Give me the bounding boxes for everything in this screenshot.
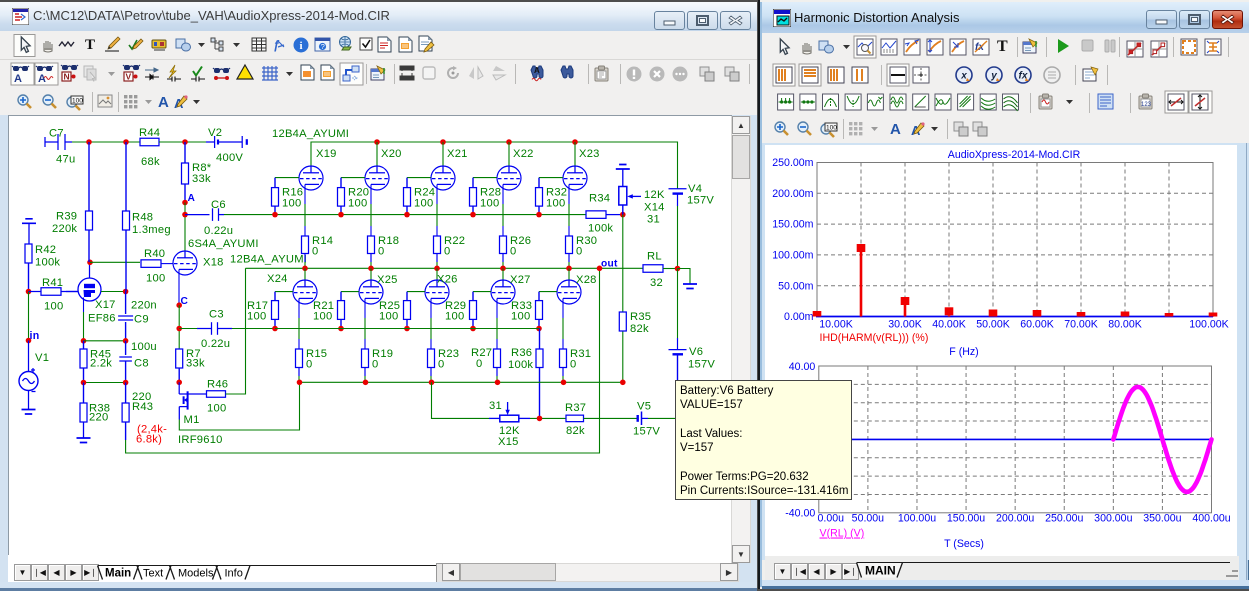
- resistor R20: [338, 178, 345, 215]
- wire grid bus row1: [224, 214, 586, 216]
- capacitor C6: [185, 208, 224, 221]
- svg-text:50.00m: 50.00m: [778, 280, 814, 292]
- node junction grid bus2: [338, 326, 344, 332]
- tube X24 12B4A: [293, 280, 317, 304]
- node junction grid bus1: [470, 212, 476, 218]
- svg-text:157V: 157V: [688, 359, 715, 371]
- svg-text:RL: RL: [647, 251, 662, 263]
- node junction C9 bottom: [123, 338, 129, 344]
- svg-text:AudioXpress-2014-Mod.CIR: AudioXpress-2014-Mod.CIR: [948, 149, 1081, 161]
- wire R39 bottom to R40: [90, 261, 140, 263]
- svg-text:C7: C7: [49, 128, 64, 140]
- svg-text:31: 31: [647, 214, 660, 226]
- battery V5: [638, 380, 678, 425]
- tube X19 12B4A: [299, 166, 323, 190]
- svg-text:60.00K: 60.00K: [1020, 319, 1054, 331]
- svg-text:2.2k: 2.2k: [90, 358, 112, 370]
- node junction grid bus2: [272, 326, 278, 332]
- wire R43 to feedback rail: [126, 268, 600, 453]
- svg-text:33k: 33k: [186, 358, 205, 370]
- svg-text:220: 220: [89, 412, 108, 424]
- svg-text:350.00u: 350.00u: [1143, 513, 1181, 525]
- tab strip: [765, 556, 1239, 580]
- resistor R31: [560, 349, 567, 376]
- svg-text:200.00m: 200.00m: [772, 188, 813, 200]
- svg-text:80.00K: 80.00K: [1108, 319, 1142, 331]
- svg-text:IRF9610: IRF9610: [178, 434, 223, 446]
- wire grid feed X23: [539, 177, 563, 179]
- resistor R21: [338, 292, 345, 329]
- svg-text:150.00u: 150.00u: [947, 513, 985, 525]
- svg-text:40.00K: 40.00K: [932, 319, 966, 331]
- node junction plate X26: [434, 266, 440, 272]
- node junction X17 cathode: [81, 338, 87, 344]
- resistor R35: [619, 312, 626, 331]
- svg-text:100u: 100u: [131, 341, 157, 353]
- svg-text:X27: X27: [510, 274, 531, 286]
- resistor R44: [140, 138, 159, 146]
- svg-text:100.00K: 100.00K: [1189, 319, 1228, 331]
- wire X17 cathode down: [83, 298, 85, 313]
- node junction grid bus2: [470, 326, 476, 332]
- wire grid feed X20: [341, 177, 365, 179]
- wire grid bus row2 right part: [275, 328, 540, 330]
- wire plate lead X27: [502, 268, 504, 280]
- battery V4: [669, 189, 687, 269]
- svg-text:R37: R37: [565, 402, 586, 414]
- node junction X17 screen: [123, 289, 129, 295]
- resistor R14: [302, 236, 309, 262]
- svg-text:12B4A_AYUMI: 12B4A_AYUMI: [272, 128, 349, 140]
- svg-text:R48: R48: [132, 212, 153, 224]
- resistor R16: [272, 178, 279, 215]
- svg-text:R42: R42: [35, 244, 56, 256]
- node junction bus3: [561, 380, 567, 386]
- svg-text:IHD(HARM(v(RL))) (%): IHD(HARM(v(RL))) (%): [820, 332, 929, 344]
- svg-text:R46: R46: [207, 379, 228, 391]
- svg-text:R39: R39: [56, 211, 77, 223]
- wire cathode X27 down: [496, 298, 498, 318]
- plot2 horizontal gridlines: [819, 384, 1212, 494]
- svg-text:200.00u: 200.00u: [996, 513, 1034, 525]
- wire top rail C7 to R44: [72, 141, 140, 143]
- wire grid feed X27: [473, 291, 491, 293]
- node junction grid bus1: [272, 212, 278, 218]
- svg-text:X20: X20: [381, 148, 402, 160]
- svg-text:82k: 82k: [566, 425, 585, 437]
- svg-text:V5: V5: [637, 401, 651, 413]
- wire R37 to V5: [584, 417, 638, 419]
- svg-text:R41: R41: [42, 277, 63, 289]
- vertical scrollbar: [731, 116, 751, 563]
- svg-text:47u: 47u: [56, 154, 75, 166]
- node junction R45 bottom: [81, 380, 87, 386]
- svg-text:C8: C8: [134, 358, 149, 370]
- wire plate lead X26: [436, 268, 438, 280]
- node junction plate X25: [368, 266, 374, 272]
- svg-text:220k: 220k: [52, 223, 77, 235]
- resistor R8: [182, 142, 189, 203]
- wire X14 bottom down to bus3: [622, 215, 624, 383]
- tube X28 12B4A: [557, 280, 581, 304]
- svg-text:0: 0: [476, 358, 482, 370]
- wire cathode X20 down: [370, 184, 372, 204]
- resistor R29: [470, 292, 477, 329]
- svg-text:100: 100: [379, 311, 398, 323]
- wire grid feed X25: [341, 291, 359, 293]
- node junction R7 bottom M1: [176, 380, 182, 386]
- resistor R37: [566, 415, 584, 422]
- wire R45 bottom to C8 bottom: [84, 382, 126, 384]
- wire node A down: [184, 203, 186, 252]
- ground below V1: [22, 410, 36, 415]
- svg-text:M1: M1: [184, 414, 200, 426]
- battery V2: [206, 136, 247, 148]
- tube X23 12B4A: [563, 166, 587, 190]
- svg-text:X17: X17: [95, 299, 116, 311]
- wire bus2 to RL: [642, 267, 644, 269]
- wire RL to ground: [678, 269, 691, 284]
- resistor RL: [643, 265, 678, 273]
- svg-text:100k: 100k: [508, 359, 533, 371]
- wire cathode X25 down: [364, 298, 366, 318]
- wire cathode X22 down: [502, 184, 504, 204]
- svg-text:12K: 12K: [644, 189, 665, 201]
- node junction grid bus1: [536, 212, 542, 218]
- svg-text:X25: X25: [377, 274, 398, 286]
- tube X27 12B4A: [491, 280, 515, 304]
- wire X17 cathode to C9 bottom: [84, 340, 126, 342]
- capacitor C8: [119, 341, 132, 383]
- node junction plate X27: [500, 266, 506, 272]
- svg-text:0: 0: [438, 359, 444, 371]
- plot1 x axis line: [816, 316, 1213, 318]
- resistor R40: [141, 260, 161, 268]
- node junction R39 bottom: [87, 260, 93, 266]
- plot1 horizontal gridlines: [817, 193, 1213, 285]
- svg-text:12B4A_AYUMI: 12B4A_AYUMI: [230, 254, 307, 266]
- node junction R8 top: [182, 139, 188, 145]
- ground below R38: [77, 438, 91, 443]
- resistor R17: [272, 292, 279, 329]
- bottom frame: [0, 582, 757, 591]
- svg-text:X28: X28: [576, 274, 597, 286]
- svg-text:-40.00: -40.00: [785, 508, 815, 520]
- canvas area: [0, 115, 757, 582]
- wire R40 to X18 grid: [161, 263, 174, 265]
- node junction plate X22: [506, 139, 512, 145]
- svg-text:X15: X15: [498, 436, 519, 448]
- node junction bus3: [620, 380, 626, 386]
- svg-text:100k: 100k: [35, 257, 60, 269]
- svg-text:400.00u: 400.00u: [1192, 513, 1230, 525]
- svg-text:0: 0: [378, 246, 384, 258]
- tube X22 12B4A: [497, 166, 521, 190]
- node junction plate X23: [572, 139, 578, 145]
- svg-text:0: 0: [570, 359, 576, 371]
- svg-text:C3: C3: [209, 309, 224, 321]
- svg-text:100: 100: [546, 198, 565, 210]
- svg-text:X24: X24: [267, 273, 288, 285]
- wire node C down: [178, 305, 180, 349]
- plot1 vertical gridlines: [861, 163, 1169, 317]
- svg-text:50.00u: 50.00u: [852, 513, 885, 525]
- wire cathode X19 down: [304, 184, 306, 204]
- plot2 vertical gridlines: [868, 366, 1163, 513]
- svg-text:6.8k): 6.8k): [136, 434, 162, 446]
- wire cathode X24 down: [298, 298, 300, 318]
- resistor R39: [86, 142, 93, 262]
- resistor R33: [536, 292, 543, 329]
- svg-text:X22: X22: [513, 148, 534, 160]
- svg-text:30.00K: 30.00K: [888, 319, 922, 331]
- svg-text:C9: C9: [134, 314, 149, 326]
- capacitor C9: [118, 292, 133, 341]
- resistor R22: [434, 236, 441, 262]
- svg-text:0: 0: [306, 359, 312, 371]
- svg-text:100: 100: [445, 311, 464, 323]
- wire cathode bus3: [300, 381, 623, 383]
- svg-text:X18: X18: [203, 257, 224, 269]
- svg-text:X21: X21: [447, 148, 468, 160]
- wire grid feed X24: [275, 291, 293, 293]
- node junction grid bus2 left: [176, 326, 182, 332]
- svg-text:X14: X14: [644, 202, 665, 214]
- svg-text:157V: 157V: [633, 426, 660, 438]
- svg-text:82k: 82k: [630, 323, 649, 335]
- node junction RL right: [675, 266, 681, 272]
- svg-text:out: out: [601, 259, 618, 270]
- wire plate lead X23: [574, 142, 576, 166]
- svg-text:0: 0: [312, 246, 318, 258]
- resistor R42: [25, 244, 32, 291]
- svg-text:32: 32: [650, 277, 663, 289]
- node junction R39 top: [86, 139, 92, 145]
- plot1 IHD trace stems: [817, 252, 1213, 317]
- transistor M1 IRF9610 PMOS: [179, 382, 206, 419]
- wire plate lead X21: [442, 142, 444, 166]
- svg-text:X19: X19: [316, 148, 337, 160]
- wire bus3 to pot X15: [432, 382, 490, 418]
- wire R44 to V2: [159, 141, 206, 143]
- svg-text:F (Hz): F (Hz): [949, 346, 978, 358]
- node junction plate X20: [374, 139, 380, 145]
- wire cathode X23 down: [568, 184, 570, 204]
- capacitor C7: [45, 134, 72, 150]
- resistor R28: [470, 178, 477, 215]
- wire cathode X26 down: [430, 298, 432, 318]
- tooltip: [675, 380, 852, 500]
- plot1 frame: [817, 163, 1213, 317]
- svg-text:10.00K: 10.00K: [819, 319, 853, 331]
- node junction R48 top: [123, 139, 129, 145]
- svg-text:100: 100: [282, 198, 301, 210]
- source V1: [19, 341, 38, 410]
- resize grip: [1222, 564, 1242, 580]
- svg-text:100: 100: [313, 311, 332, 323]
- wire node to in node: [28, 292, 30, 341]
- plot2 frame: [819, 366, 1212, 513]
- ground above X14: [616, 165, 630, 187]
- node junction grid bus1: [404, 212, 410, 218]
- svg-text:100: 100: [207, 403, 226, 415]
- ground at RL: [683, 284, 697, 289]
- svg-text:V4: V4: [688, 183, 702, 195]
- wire plate lead X22: [508, 142, 510, 166]
- potentiometer X14: [619, 187, 641, 215]
- svg-text:0: 0: [444, 246, 450, 258]
- resistor R15: [296, 349, 303, 376]
- svg-text:250.00m: 250.00m: [772, 157, 813, 169]
- wire grid feed X22: [473, 177, 497, 179]
- svg-text:150.00m: 150.00m: [772, 219, 813, 231]
- wire plate lead X28: [568, 268, 570, 280]
- resistor R38: [80, 383, 87, 438]
- svg-text:100: 100: [511, 311, 530, 323]
- resistor R46: [207, 391, 226, 398]
- battery V6: [669, 269, 687, 381]
- svg-text:0.00m: 0.00m: [784, 311, 814, 323]
- svg-text:40.00: 40.00: [789, 361, 816, 373]
- node junction bus3: [297, 380, 303, 386]
- svg-text:250.00u: 250.00u: [1045, 513, 1083, 525]
- potentiometer X15: [489, 402, 530, 422]
- svg-text:300.00u: 300.00u: [1094, 513, 1132, 525]
- wire M1 source to bus3: [179, 382, 299, 430]
- resistor R32: [536, 178, 543, 215]
- node A: [182, 200, 188, 206]
- svg-text:V2: V2: [208, 127, 222, 139]
- plot1 IHD trace markers: [813, 311, 822, 317]
- node junction pot X14 bottom: [620, 212, 626, 218]
- node junction out to x600: [597, 266, 603, 272]
- resistor R30: [566, 236, 573, 262]
- svg-text:31: 31: [489, 400, 502, 412]
- wire plate lead X24: [304, 268, 306, 280]
- svg-text:100.00m: 100.00m: [772, 250, 813, 262]
- svg-text:R44: R44: [139, 127, 160, 139]
- resistor R41: [29, 288, 79, 296]
- svg-text:6S4A_AYUMI: 6S4A_AYUMI: [188, 238, 259, 250]
- svg-text:100: 100: [247, 311, 266, 323]
- tube X17 EF86 pentode: [66, 262, 101, 301]
- resistor R25: [404, 292, 411, 329]
- svg-text:0.22u: 0.22u: [204, 225, 233, 237]
- resistor R26: [500, 236, 507, 262]
- wire grid feed X28: [539, 291, 557, 293]
- node junction grid bus2: [536, 326, 542, 332]
- node junction grid bus1: [338, 212, 344, 218]
- svg-text:33k: 33k: [192, 173, 211, 185]
- svg-text:100k: 100k: [588, 223, 613, 235]
- node junction C6 tap: [182, 212, 188, 218]
- svg-text:157V: 157V: [687, 195, 714, 207]
- svg-text:70.00K: 70.00K: [1064, 319, 1098, 331]
- node junction plate X24: [302, 266, 308, 272]
- wire grid feed X26: [407, 291, 425, 293]
- svg-text:X23: X23: [579, 148, 600, 160]
- wire plate lead X20: [376, 142, 378, 166]
- resistor R48: [123, 142, 130, 292]
- svg-text:100: 100: [480, 198, 499, 210]
- capacitor C3: [179, 322, 275, 335]
- svg-text:100: 100: [44, 301, 63, 313]
- svg-text:V(RL) (V): V(RL) (V): [820, 528, 865, 540]
- svg-text:C6: C6: [211, 199, 226, 211]
- tube X18 6S4A: [173, 251, 197, 275]
- resistor R45: [80, 341, 87, 383]
- tube X21 12B4A: [431, 166, 455, 190]
- node junction bus3: [429, 380, 435, 386]
- node C: [176, 302, 182, 308]
- resistor R7: [176, 349, 183, 382]
- bottom tab strip + h scrollbar: [8, 555, 436, 582]
- wire X18 cathode down to node C: [178, 269, 180, 305]
- svg-text:100: 100: [348, 198, 367, 210]
- wire plate lead X25: [370, 268, 372, 280]
- svg-text:100.00u: 100.00u: [898, 513, 936, 525]
- resistor R24: [404, 178, 411, 215]
- svg-text:0: 0: [510, 246, 516, 258]
- svg-text:V6: V6: [689, 346, 703, 358]
- svg-text:100: 100: [146, 273, 165, 285]
- svg-text:100: 100: [414, 198, 433, 210]
- node junction R42 R41: [26, 289, 32, 295]
- svg-text:50.00K: 50.00K: [976, 319, 1010, 331]
- resistor R27: [494, 349, 501, 376]
- svg-text:R43: R43: [132, 401, 153, 413]
- node junction plate X21: [440, 139, 446, 145]
- wire row1 plate bus: [311, 142, 678, 189]
- resistor R43: [122, 383, 129, 441]
- svg-text:EF86: EF86: [88, 313, 116, 325]
- resistor R18: [368, 236, 375, 262]
- client: [762, 143, 1249, 560]
- svg-text:1.3meg: 1.3meg: [132, 224, 171, 236]
- node junction bus3: [495, 380, 501, 386]
- resistor R36: [536, 329, 543, 419]
- plot2 V(RL) sine wave magenta trace: [1113, 387, 1211, 492]
- svg-text:T (Secs): T (Secs): [944, 538, 984, 550]
- tube X25 12B4A: [359, 280, 383, 304]
- svg-text:0.00u: 0.00u: [818, 513, 845, 525]
- resistor R34: [586, 211, 622, 219]
- wire grid feed X19: [275, 177, 299, 179]
- svg-text:400V: 400V: [216, 152, 243, 164]
- svg-text:0: 0: [576, 246, 582, 258]
- wire R46 to bus2 left end: [226, 268, 246, 394]
- node in: [26, 338, 32, 344]
- plot2 V(RL) zero line blue trace: [819, 438, 1212, 440]
- svg-text:A: A: [188, 193, 196, 204]
- wire cathode X28 down: [562, 298, 564, 318]
- wire cathode X21 down: [436, 184, 438, 204]
- svg-text:0: 0: [372, 359, 378, 371]
- svg-text:68k: 68k: [141, 156, 160, 168]
- svg-text:R34: R34: [589, 193, 610, 205]
- node junction R36 bottom: [537, 416, 543, 422]
- tube X20 12B4A: [365, 166, 389, 190]
- wire grid feed X21: [407, 177, 431, 179]
- wire row2 plate bus out net: [246, 267, 644, 269]
- node junction C8 bottom: [123, 380, 129, 386]
- svg-text:X26: X26: [437, 274, 458, 286]
- svg-text:R36: R36: [511, 347, 532, 359]
- svg-text:V1: V1: [35, 352, 49, 364]
- node junction bus3: [363, 380, 369, 386]
- resistor R19: [362, 349, 369, 376]
- svg-text:220n: 220n: [131, 300, 157, 312]
